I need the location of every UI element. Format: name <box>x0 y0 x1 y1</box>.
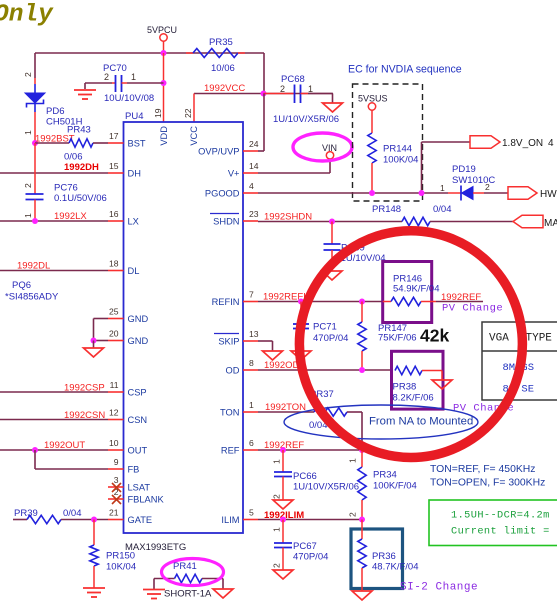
svg-text:48.7K/F/04: 48.7K/F/04 <box>372 562 418 573</box>
svg-text:4: 4 <box>548 138 554 149</box>
net 1992ILIM <box>264 510 304 521</box>
pin 5 ILIM <box>221 508 258 526</box>
pin 19 VDD <box>153 108 169 145</box>
svg-text:VCC: VCC <box>189 126 199 146</box>
no-connect X FBLANK <box>112 495 121 504</box>
svg-text:PR35: PR35 <box>209 37 233 48</box>
svg-text:GATE: GATE <box>128 515 153 525</box>
svg-text:8.2K/F/06: 8.2K/F/06 <box>393 393 434 404</box>
node junction REF-PC66 <box>280 447 286 453</box>
net 1992CSN <box>64 410 105 421</box>
svg-text:MAI: MAI <box>544 218 557 229</box>
svg-text:PC71: PC71 <box>313 322 337 333</box>
net 1992REFIN <box>263 292 313 303</box>
resistor PR38 <box>393 366 443 403</box>
annotation TON frequencies <box>430 464 545 489</box>
wire OVP/UVP <box>258 94 264 152</box>
svg-text:SHDN: SHDN <box>213 217 239 227</box>
pin 10 OUT <box>108 438 147 456</box>
ground for SKIP <box>263 351 283 360</box>
EC for NVDIA annotation box <box>348 64 462 202</box>
svg-text:1: 1 <box>272 527 282 532</box>
svg-text:2: 2 <box>272 494 282 499</box>
wire VDD drop <box>163 53 165 122</box>
pin 6 REF <box>221 438 258 456</box>
resistor PR35 <box>186 37 245 74</box>
svg-text:PC76: PC76 <box>54 183 78 194</box>
svg-text:PR39: PR39 <box>14 508 38 519</box>
svg-text:VDD: VDD <box>159 126 169 146</box>
svg-text:PD19: PD19 <box>452 164 476 175</box>
capacitor PC71 <box>293 302 348 352</box>
power symbol 5VPCU <box>147 25 177 53</box>
svg-text:8: 8 <box>249 358 254 368</box>
wire GND25 <box>94 319 109 341</box>
net 1992REF <box>264 440 304 451</box>
resistor PR144 <box>368 133 419 193</box>
port HW <box>508 187 557 200</box>
ground earth for PC70 <box>74 83 96 99</box>
svg-text:PR41: PR41 <box>173 561 197 572</box>
wire GND20 <box>94 340 109 342</box>
net 1992REF label right <box>441 292 481 303</box>
pin 1 TON <box>220 400 258 418</box>
svg-text:25: 25 <box>109 307 119 317</box>
svg-text:2: 2 <box>280 84 285 94</box>
ground for PC66 <box>273 500 293 509</box>
svg-text:2: 2 <box>23 183 33 188</box>
pin 24 OVP/UVP <box>198 139 259 157</box>
diode PD19 SW1010C <box>440 164 508 201</box>
ground for PC71 <box>291 351 311 360</box>
svg-text:1992VCC: 1992VCC <box>204 83 245 94</box>
svg-text:2: 2 <box>23 72 33 77</box>
svg-text:TON=REF, F= 450KHz: TON=REF, F= 450KHz <box>430 464 535 475</box>
svg-text:Current limit =: Current limit = <box>451 526 550 538</box>
node junction PGOOD-PR144 <box>369 190 375 196</box>
node junction ILIM-PR36 <box>359 517 365 523</box>
svg-text:100K/04: 100K/04 <box>383 155 418 166</box>
wire TON down <box>361 412 363 450</box>
svg-text:HW: HW <box>540 189 557 200</box>
annotation PV Change 1 <box>442 303 503 315</box>
node junction LX <box>32 218 38 224</box>
pin 22 VCC <box>183 108 199 145</box>
svg-text:2: 2 <box>485 182 490 192</box>
svg-text:1: 1 <box>440 183 445 193</box>
svg-text:1: 1 <box>308 84 313 94</box>
svg-text:1U/10V/X5R/06: 1U/10V/X5R/06 <box>293 482 359 493</box>
pin 13 SKIP <box>214 329 259 347</box>
pin 14 V+ <box>228 161 259 179</box>
net 1992OD <box>264 360 300 371</box>
ground for PR36 <box>352 591 372 600</box>
svg-text:11: 11 <box>110 380 119 390</box>
svg-text:LX: LX <box>128 217 139 227</box>
resistor PR147 <box>358 302 417 371</box>
svg-text:100K/F/04: 100K/F/04 <box>373 481 417 492</box>
svg-text:OVP/UVP: OVP/UVP <box>198 147 239 157</box>
net 1992OUT <box>44 440 85 451</box>
svg-text:18: 18 <box>109 259 119 269</box>
svg-text:1U/10V/X5R/06: 1U/10V/X5R/06 <box>273 114 339 125</box>
net 1992LX <box>54 211 87 222</box>
svg-text:PC66: PC66 <box>293 471 317 482</box>
wire PGOOD <box>258 192 448 194</box>
wire left drop from rail <box>34 53 36 78</box>
node junction REFIN-PR147 <box>359 299 365 305</box>
svg-text:24: 24 <box>249 139 259 149</box>
svg-text:470P/04: 470P/04 <box>293 552 328 563</box>
resistor PR148 <box>372 204 513 226</box>
svg-text:VGA: VGA <box>489 333 509 345</box>
resistor PR41 <box>154 561 223 600</box>
annotation ellipse From NA to Mounted <box>284 405 478 439</box>
pin 4 PGOOD <box>205 181 258 199</box>
wire OUT <box>0 449 108 451</box>
svg-text:CSN: CSN <box>128 415 148 425</box>
capacitor PC70 <box>85 63 164 104</box>
pin 21 GATE <box>108 508 152 526</box>
annotation 42k <box>420 326 449 346</box>
svg-text:1: 1 <box>348 458 358 463</box>
pin 25 GND <box>108 307 148 325</box>
svg-text:LSAT: LSAT <box>128 483 151 493</box>
svg-text:V+: V+ <box>228 169 240 179</box>
wire LX <box>0 220 108 222</box>
annotation green box <box>429 500 557 546</box>
wire CSN <box>0 419 108 421</box>
port MA <box>513 215 557 229</box>
svg-text:5VSUS: 5VSUS <box>358 94 388 104</box>
svg-text:4: 4 <box>249 181 254 191</box>
wire DH <box>0 172 108 174</box>
ground for GND pins <box>84 341 104 358</box>
svg-text:PV Change: PV Change <box>442 303 503 315</box>
node junction GATE <box>91 517 97 523</box>
ground for PR38 <box>432 380 452 389</box>
svg-text:5: 5 <box>249 508 254 518</box>
svg-text:SKIP: SKIP <box>218 337 239 347</box>
node junction rail-PC70 <box>161 80 167 86</box>
svg-text:1.8V_ON: 1.8V_ON <box>502 138 543 149</box>
resistor PR34 <box>348 450 417 520</box>
resistor PR37 <box>258 389 362 431</box>
capacitor PC69 <box>324 222 386 272</box>
net 1992SHDN <box>264 212 312 223</box>
svg-text:42k: 42k <box>420 326 449 346</box>
svg-text:0.1U/50V/06: 0.1U/50V/06 <box>54 193 107 204</box>
svg-text:CSP: CSP <box>128 388 147 398</box>
svg-text:TON: TON <box>220 408 239 418</box>
svg-text:16: 16 <box>109 209 119 219</box>
pin 9 FB <box>108 457 139 475</box>
wire V+ <box>258 159 330 174</box>
svg-text:TON=OPEN, F= 300KHz: TON=OPEN, F= 300KHz <box>430 478 545 489</box>
node junction VCC-PC68 <box>261 91 267 97</box>
svg-text:2: 2 <box>104 72 109 82</box>
node junction rail-5VPCU <box>161 50 167 56</box>
wire SKIP <box>258 341 273 351</box>
svg-text:470P/04: 470P/04 <box>313 333 348 344</box>
diode PD6 CH501H <box>23 72 83 143</box>
node junction OD-PR147 <box>359 367 365 373</box>
svg-text:1: 1 <box>249 400 254 410</box>
power symbol VIN <box>293 133 352 161</box>
svg-text:GND: GND <box>128 336 149 346</box>
svg-text:1: 1 <box>23 130 33 135</box>
svg-text:Only: Only <box>0 2 54 29</box>
svg-text:REFIN: REFIN <box>212 297 240 307</box>
annotation box PR38 <box>392 351 444 409</box>
svg-text:7: 7 <box>249 290 254 300</box>
wire VCC rail corner <box>264 53 333 94</box>
svg-text:ILIM: ILIM <box>221 515 239 525</box>
wire DL <box>0 270 108 272</box>
svg-text:20: 20 <box>109 329 119 339</box>
svg-text:PR43: PR43 <box>67 125 91 136</box>
svg-text:FB: FB <box>128 465 140 475</box>
svg-text:SI-2 Change: SI-2 Change <box>400 582 478 594</box>
net 1992DL <box>17 261 50 272</box>
svg-text:DH: DH <box>128 169 141 179</box>
svg-text:PU4: PU4 <box>125 111 143 122</box>
svg-text:From NA to Mounted: From NA to Mounted <box>369 416 473 428</box>
svg-text:12: 12 <box>109 408 119 418</box>
annotation box PR36 <box>351 529 403 589</box>
wire CSP <box>0 391 108 393</box>
op-amp IC U1 PU4 MAX1993ETG body <box>124 111 244 553</box>
ground for PR150 <box>83 588 105 597</box>
svg-text:14: 14 <box>249 161 259 171</box>
wire 1.8V_ON <box>422 142 471 193</box>
svg-text:1992DH: 1992DH <box>64 162 99 173</box>
pin 12 CSN <box>108 408 147 426</box>
ground for PR41 right <box>213 589 233 598</box>
wire top rail <box>35 52 264 54</box>
svg-text:SHORT-1A: SHORT-1A <box>164 589 212 600</box>
svg-text:10: 10 <box>109 438 119 448</box>
pin 17 BST <box>108 131 146 149</box>
svg-text:PGOOD: PGOOD <box>205 189 240 199</box>
power symbol 5VSUS <box>358 94 388 134</box>
pin 7 REFIN <box>212 290 258 308</box>
wire 1992VCC <box>194 94 264 123</box>
svg-text:2: 2 <box>272 563 282 568</box>
net 1992DH <box>64 162 99 173</box>
svg-text:22: 22 <box>183 108 193 118</box>
resistor PR43 <box>35 125 108 163</box>
svg-text:PR34: PR34 <box>373 470 397 481</box>
capacitor PC68 <box>264 74 340 125</box>
svg-text:DL: DL <box>128 266 140 276</box>
net 1992VCC <box>204 83 245 94</box>
highlight ellipse PR41 <box>162 559 224 586</box>
svg-text:54.9K/F/04: 54.9K/F/04 <box>393 284 439 295</box>
pin 11 CSP <box>108 380 147 398</box>
svg-text:GND: GND <box>128 314 149 324</box>
capacitor PC76 <box>23 143 107 221</box>
svg-text:REF: REF <box>221 446 240 456</box>
svg-text:PR38: PR38 <box>393 382 417 393</box>
svg-text:0/04: 0/04 <box>63 508 82 519</box>
node junction REFIN-PC71 <box>298 299 304 305</box>
wire OD <box>258 369 392 371</box>
svg-text:EC for NVDIA sequence: EC for NVDIA sequence <box>348 64 462 76</box>
no-connect X LSAT <box>112 483 121 492</box>
net 1992BST <box>35 134 75 145</box>
annotation VGA table <box>482 322 557 400</box>
pin 15 DH <box>108 161 141 179</box>
svg-text:10U/10V/08: 10U/10V/08 <box>104 93 154 104</box>
wire REF <box>258 449 362 451</box>
svg-text:15: 15 <box>109 161 119 171</box>
svg-text:10/06: 10/06 <box>211 63 235 74</box>
svg-text:PR144: PR144 <box>383 144 412 155</box>
svg-text:FBLANK: FBLANK <box>128 495 165 505</box>
svg-text:75K/F/06: 75K/F/06 <box>378 333 417 344</box>
resistor PR146 <box>383 274 483 306</box>
resistor PR39 <box>13 508 108 524</box>
annotation PV Change 2 <box>453 403 514 415</box>
capacitor PC67 <box>272 520 329 571</box>
svg-text:OD: OD <box>226 366 240 376</box>
node junction OUT <box>32 447 38 453</box>
svg-text:PR148: PR148 <box>372 204 401 215</box>
svg-text:PQ6: PQ6 <box>12 280 31 291</box>
svg-text:1: 1 <box>23 213 33 218</box>
annotation box PR146 <box>383 262 432 323</box>
svg-text:2: 2 <box>348 512 358 517</box>
pin 23 SHDN <box>210 209 259 227</box>
svg-text:9: 9 <box>114 457 119 467</box>
wire REFIN <box>258 301 383 303</box>
annotation SI-2 Change <box>400 582 478 594</box>
resistor PR150 <box>90 520 136 589</box>
svg-text:1.5UH--DCR=4.2m: 1.5UH--DCR=4.2m <box>451 510 550 522</box>
node junction REF-PR34 <box>359 447 365 453</box>
svg-text:23: 23 <box>249 209 259 219</box>
svg-text:PR150: PR150 <box>106 551 135 562</box>
svg-text:TYPE: TYPE <box>526 333 553 345</box>
svg-text:1992REF: 1992REF <box>441 292 481 303</box>
svg-text:3: 3 <box>114 475 119 485</box>
ground for PC69 <box>322 271 342 280</box>
svg-text:13: 13 <box>249 329 259 339</box>
svg-text:17: 17 <box>109 131 119 141</box>
wire FB <box>35 450 108 469</box>
net 1992CSP <box>64 383 105 394</box>
svg-text:1: 1 <box>131 72 136 82</box>
pin 20 GND <box>108 329 148 347</box>
pin 3 LSAT <box>108 475 150 493</box>
svg-text:*SI4856ADY: *SI4856ADY <box>5 292 59 303</box>
node junction PGOOD-1.8V <box>419 190 425 196</box>
svg-text:21: 21 <box>109 508 119 518</box>
svg-text:BST: BST <box>128 139 146 149</box>
port 1.8V_ON <box>470 136 554 149</box>
svg-text:19: 19 <box>153 108 163 118</box>
svg-text:10K/04: 10K/04 <box>106 562 136 573</box>
ground for PC68 <box>323 103 343 112</box>
svg-text:OUT: OUT <box>128 446 148 456</box>
svg-text:0/06: 0/06 <box>64 152 83 163</box>
svg-text:PD6: PD6 <box>46 106 64 117</box>
node junction BST <box>32 140 38 146</box>
ground earth for PR41 left <box>143 590 165 599</box>
pin 18 DL <box>108 259 139 277</box>
svg-text:0/04: 0/04 <box>433 204 452 215</box>
pin 2 FBLANK <box>108 487 164 505</box>
wire ILIM <box>258 519 362 521</box>
resistor PR36 <box>358 520 419 592</box>
watermark text Only <box>0 2 54 29</box>
svg-text:6: 6 <box>249 438 254 448</box>
net 1992TON <box>265 402 306 413</box>
transistor ref PQ6 <box>5 280 59 303</box>
svg-text:PC67: PC67 <box>293 541 317 552</box>
ground for PC67 <box>273 570 293 579</box>
capacitor PC66 <box>272 450 360 500</box>
node junction ILIM-PC67 <box>280 517 286 523</box>
node junction SHDN-PC69 <box>329 219 335 225</box>
wire SHDN <box>258 221 402 223</box>
svg-text:PR36: PR36 <box>372 551 396 562</box>
svg-text:1: 1 <box>272 459 282 464</box>
node junction GND <box>91 338 97 344</box>
highlight red circle <box>299 231 522 458</box>
pin 16 LX <box>108 209 139 227</box>
pin 8 OD <box>226 358 258 376</box>
